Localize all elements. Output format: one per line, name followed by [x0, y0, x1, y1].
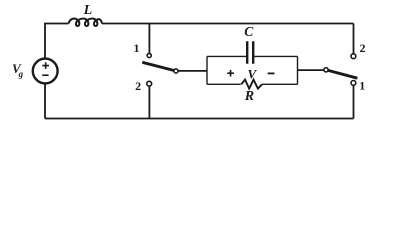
box bottom edge left of resistor	[207, 83, 241, 85]
wire left pole to box	[178, 70, 207, 72]
voltage source Vg circle	[33, 59, 58, 84]
svg-text:1: 1	[359, 79, 365, 93]
node terminal 2 left	[147, 81, 152, 86]
wire right terminal 2 up to top rail	[353, 24, 355, 54]
source minus sign	[42, 74, 48, 76]
box top edge right of capacitor	[254, 55, 297, 57]
svg-text:R: R	[244, 89, 254, 104]
wire left terminal 2 down to bottom rail	[148, 86, 150, 118]
node pole left	[174, 69, 178, 73]
node terminal 1 right	[351, 81, 356, 86]
wire box to right pole	[298, 69, 324, 71]
svg-text:C: C	[244, 24, 254, 39]
switch S2 blade	[328, 70, 357, 78]
svg-text:g: g	[18, 69, 24, 79]
wire bottom rail	[45, 118, 354, 120]
wire top rail left (corner to inductor)	[45, 24, 69, 59]
box bottom edge right of resistor	[262, 83, 298, 85]
inductor L	[69, 19, 103, 26]
svg-text:2: 2	[360, 41, 366, 55]
capacitor C plates	[247, 41, 253, 63]
node pole right	[324, 68, 328, 72]
svg-text:2: 2	[135, 79, 141, 93]
svg-text:1: 1	[134, 41, 140, 55]
svg-text:L: L	[83, 3, 93, 18]
node terminal 2 right	[351, 54, 356, 59]
polarity minus in box	[268, 72, 275, 74]
wire left vertical below source to bottom rail	[44, 83, 46, 118]
box top edge left of capacitor	[207, 55, 246, 57]
source plus sign	[42, 62, 49, 69]
node terminal 1 left	[147, 53, 151, 57]
box left edge	[206, 56, 208, 84]
wire right terminal 1 down to bottom rail	[353, 85, 355, 118]
wire left switch drop from top rail	[148, 24, 150, 54]
box right edge	[297, 56, 299, 84]
switch S1 blade	[142, 62, 176, 71]
wire top rail right (inductor to right corner)	[102, 23, 354, 25]
svg-text:V: V	[247, 66, 257, 81]
polarity plus in box	[227, 70, 234, 77]
resistor R zigzag	[241, 80, 262, 89]
